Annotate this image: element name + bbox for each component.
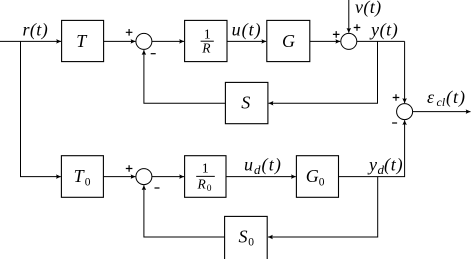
wire T to sum1 [104,40,136,42]
svg-text:T: T [74,166,86,186]
label u_d(t) [244,155,282,178]
block S0 [225,216,268,259]
block T0 [61,156,103,198]
svg-text:S: S [241,93,250,113]
block S [225,82,268,123]
svg-text:y: y [367,155,377,175]
summing junction sum4 [136,169,152,185]
svg-text:(t): (t) [262,155,283,176]
wire G to sum2 [310,40,340,42]
svg-text:G: G [306,166,319,186]
svg-text:0: 0 [85,176,91,188]
plus sign sum2 top [354,24,361,31]
svg-text:u: u [244,155,253,175]
block G [267,20,310,61]
svg-text:G: G [282,31,295,51]
block 1/R0 [185,156,226,198]
svg-text:r(t): r(t) [23,20,49,41]
plus sign sum1 [126,29,133,36]
wire y_d branch down to S0 feedback [268,177,378,237]
svg-text:0: 0 [319,176,325,188]
svg-text:d: d [254,162,261,177]
plus sign sum2 left [333,31,340,38]
svg-text:S: S [239,226,248,246]
svg-text:T: T [76,31,88,51]
minus sign sum1 [151,53,156,55]
wire y down to sum3 [404,41,406,103]
wire G0 to sum3 [339,120,405,176]
summing junction sum1 [136,33,152,49]
svg-text:y(t): y(t) [369,20,398,41]
minus sign sum4 [155,187,160,189]
wire T0 to sum4 [103,176,135,178]
plus sign sum3 [393,94,400,101]
block 1/R [185,20,227,61]
svg-text:R: R [197,176,207,191]
wire r(t) input [0,40,61,42]
summing junction sum3 [397,104,413,120]
wire S to sum1 feedback [144,50,226,103]
wire S0 to sum4 feedback [144,185,225,237]
wire y branch down to S feedback [269,41,378,103]
svg-text:0: 0 [207,184,212,194]
svg-text:u(t): u(t) [232,20,262,41]
minus sign sum3 [392,122,397,124]
svg-text:cl: cl [437,95,446,109]
block G0 [296,156,338,198]
wire epsilon output [413,111,471,113]
wire v(t) [348,0,350,33]
label epsilon_cl(t) [427,87,466,109]
svg-text:v(t): v(t) [355,0,382,18]
wire sum1 to 1/R [152,40,184,42]
svg-text:(t): (t) [446,87,466,108]
svg-text:0: 0 [248,237,254,249]
label y_d(t) [367,155,403,178]
summing junction sum2 [341,33,357,49]
svg-text:R: R [201,41,211,56]
block T [62,20,104,61]
wire r branch down to T0 [21,41,61,176]
wire sum4 to 1/R0 [152,176,184,178]
svg-text:1: 1 [202,162,209,177]
wire 1/R0 to G0 [226,176,296,178]
wire y(t) from sum2 to corner [357,40,405,42]
svg-text:(t): (t) [384,155,403,176]
wire 1/R to G [227,40,266,42]
svg-text:ε: ε [427,87,435,107]
plus sign sum4 [126,165,133,172]
